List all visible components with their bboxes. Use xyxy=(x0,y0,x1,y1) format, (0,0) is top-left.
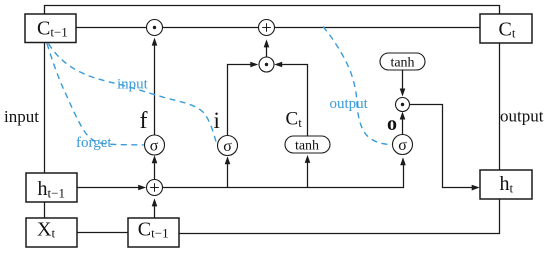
box X_t xyxy=(26,218,77,247)
svg-text:σ: σ xyxy=(150,138,159,155)
node: plus circle B (cell update add) xyxy=(259,20,275,36)
box C_(t-1) top left xyxy=(25,14,76,43)
wire: plus node E up into sigma f (arrow) xyxy=(152,155,158,179)
node: sigma circle o (output gate) xyxy=(393,135,413,155)
dashed curve: forget gate (blue) xyxy=(47,44,144,145)
svg-text:o: o xyxy=(387,113,397,135)
wire: sigma i up and right into multiply node C (arrow) xyxy=(228,62,259,136)
wire: tanh mid up and left into multiply node C (arrow) xyxy=(274,62,307,136)
node: plus circle E (h_(t-1) + x add) xyxy=(147,180,163,196)
dashed curve: output gate (blue) xyxy=(323,27,392,145)
wire: h_(t-1) right into plus node E (arrow) xyxy=(77,185,146,191)
wire: X_t right to C_(t-1) bottom box xyxy=(77,232,128,234)
wire: C_t box down to h_t box top xyxy=(499,43,501,170)
svg-text:input: input xyxy=(117,77,149,93)
box h_t xyxy=(480,170,532,199)
svg-text:tanh: tanh xyxy=(295,139,319,154)
wire: branch up into tanh mid (arrow) xyxy=(305,155,311,188)
wire: C_(t-1) right to multiply node xyxy=(76,27,147,29)
svg-text:output: output xyxy=(500,107,544,126)
wire: tanh upper down into multiply node D (arrow down) xyxy=(400,70,406,97)
wire: input vertical from C_(t-1) box down to h_(t-1) xyxy=(44,43,46,174)
svg-text:input: input xyxy=(4,107,39,126)
svg-text:σ: σ xyxy=(223,138,232,155)
dashed curve: input gate (blue) xyxy=(49,44,217,144)
node: multiply circle A (forget gate x cell) xyxy=(147,20,163,36)
box C_t top right xyxy=(480,14,532,43)
wire: plus node to C_t box xyxy=(274,27,480,29)
svg-text:tanh: tanh xyxy=(390,56,414,71)
wire: branch up into sigma i (arrow) xyxy=(225,156,231,187)
wire: multiply node D right and down into h_t box (arrow) xyxy=(410,105,480,191)
svg-text:f: f xyxy=(140,108,148,134)
wire: top bypass from C_(t-1) box top to C_t box top xyxy=(45,6,500,15)
wire: sigma o up into multiply node D (arrow) xyxy=(400,112,406,135)
wire: C_(t-1) bottom box up into plus node E (arrow) xyxy=(152,198,158,218)
box C_(t-1) bottom xyxy=(128,218,179,247)
svg-text:i: i xyxy=(214,108,220,133)
node: tanh stadium middle (candidate) xyxy=(285,136,330,154)
node: tanh stadium upper xyxy=(380,53,425,71)
wire: plus node E output line to the right ending at sigma o (arrow up) xyxy=(163,157,406,187)
svg-text:σ: σ xyxy=(398,137,407,154)
svg-text:output: output xyxy=(330,96,369,112)
node: multiply circle C (input gate x candidate) xyxy=(259,57,274,72)
box h_(t-1) xyxy=(26,173,77,202)
wire: sigma f up into multiply node (arrow) xyxy=(152,38,158,135)
wire: multiply node C up into plus node B (arrow) xyxy=(264,39,270,57)
wire: multiply node to plus node (cell line) xyxy=(163,27,259,29)
wire: h_t box bottom down and left to C_(t-1) bottom box xyxy=(179,199,500,234)
node: multiply circle D (output gate x tanh) xyxy=(396,98,410,112)
wire: h_(t-1) bottom to X_t top xyxy=(44,202,46,218)
node: sigma circle i (input gate) xyxy=(218,136,238,156)
node: sigma circle f (forget gate) xyxy=(145,135,165,155)
svg-text:forget: forget xyxy=(76,135,112,151)
